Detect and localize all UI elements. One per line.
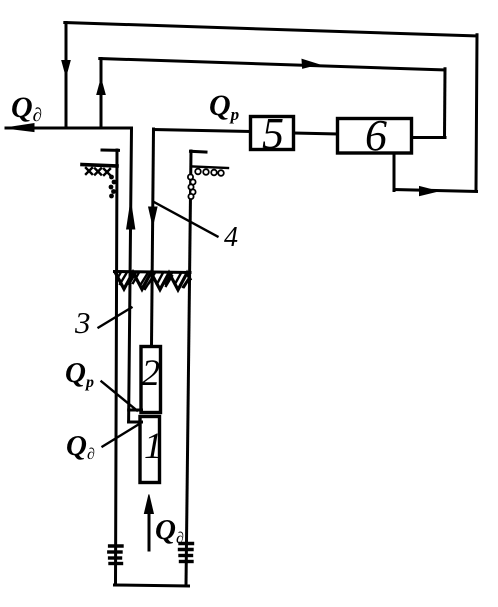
wire conduit 4 horizontal to block 5 [154, 130, 250, 132]
svg-text:4: 4 [224, 222, 238, 253]
ground hatch right of casing [193, 167, 229, 169]
arrow down on conduit 4 [149, 207, 157, 226]
leader line label Qp left [102, 382, 138, 411]
casing bottom [115, 585, 189, 586]
leader line label 3 [99, 308, 132, 328]
svg-text:Q∂: Q∂ [155, 514, 184, 547]
wire inner-loop left vertical [100, 59, 103, 128]
casing left wall [116, 150, 118, 585]
svg-text:1: 1 [144, 426, 163, 467]
perforation ribs left casing [109, 546, 122, 564]
leader line label 4 [154, 202, 218, 237]
ground hatch left of casing [82, 165, 117, 176]
conduit 3 (annulus line) vertical [129, 128, 132, 422]
block 6 [338, 119, 412, 154]
arrow up on conduit 3 [127, 202, 135, 229]
arrow right on outer-loop bottom [420, 187, 439, 196]
casing right wall [186, 151, 191, 585]
svg-text:3: 3 [74, 305, 91, 340]
port small box between devices 1 and 2 [129, 410, 142, 422]
svg-text:Q∂: Q∂ [11, 91, 42, 126]
svg-text:Q∂: Q∂ [66, 430, 95, 463]
arrow down on outer-loop left vertical [62, 61, 70, 77]
arrow right on inner-loop top horizontal [302, 59, 318, 68]
svg-text:5: 5 [262, 109, 284, 158]
arrow up on inner-loop left vertical [97, 79, 105, 95]
wire inner-loop stub to block 6 [413, 136, 445, 139]
block 5 [251, 117, 294, 150]
wire inner-loop right vertical [443, 69, 447, 137]
packer hatched band [115, 272, 191, 290]
conduit 4 (tubing line) vertical [152, 129, 154, 345]
svg-text:Qp: Qp [209, 89, 239, 124]
wire wellhead output line Qd [6, 127, 132, 130]
wire outer-loop top horizontal [65, 23, 477, 37]
device 1 (lower tool) [140, 417, 160, 483]
casing right flange [191, 150, 207, 154]
casing left flange [102, 149, 119, 152]
device 2 (upper tool) [141, 347, 161, 413]
gravel dots right of casing [188, 169, 224, 199]
wire outer-loop left vertical [65, 23, 68, 128]
perforation ribs right casing [180, 544, 193, 562]
wire block6 bottom stub [393, 155, 396, 191]
wire outer-loop bottom horizontal [394, 190, 477, 192]
svg-text:6: 6 [365, 111, 387, 160]
svg-text:2: 2 [142, 353, 161, 394]
gravel dots along left casing [109, 175, 117, 199]
wire outer-loop right vertical [476, 35, 477, 191]
arrow up Qd at well bottom [148, 513, 151, 550]
wire inner-loop top horizontal [100, 59, 445, 71]
leader line label Qd left [103, 424, 141, 447]
wire block5 to block6 [294, 133, 337, 134]
svg-text:Qp: Qp [65, 357, 94, 391]
arrow left on wellhead output [5, 124, 34, 132]
